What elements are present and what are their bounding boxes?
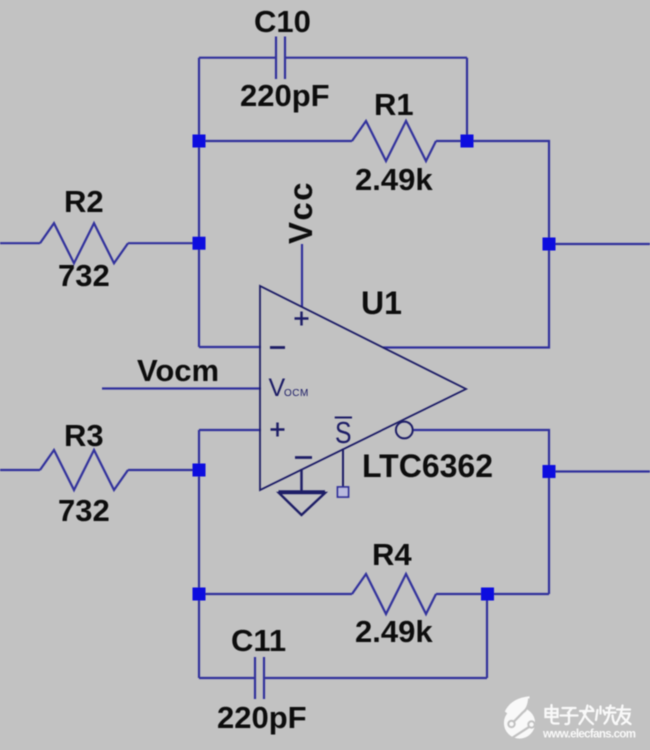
svg-text:LTC6362: LTC6362 [362,448,493,484]
svg-text:OCM: OCM [284,388,309,399]
svg-text:220pF: 220pF [217,700,307,735]
svg-text:S: S [335,415,352,450]
svg-text:2.49k: 2.49k [355,614,433,649]
svg-text:732: 732 [58,493,110,528]
svg-text:www.elecfans.com: www.elecfans.com [542,729,636,741]
svg-text:2.49k: 2.49k [355,162,433,197]
svg-text:R2: R2 [64,184,104,219]
svg-text:R4: R4 [372,537,412,572]
svg-text:U1: U1 [361,285,402,321]
svg-text:R3: R3 [64,418,104,453]
svg-text:Vcc: Vcc [282,181,319,244]
svg-text:220pF: 220pF [240,78,330,113]
svg-text:R1: R1 [374,87,414,122]
svg-text:732: 732 [58,258,110,293]
svg-text:C11: C11 [231,623,286,658]
svg-text:C10: C10 [254,4,311,39]
svg-text:V: V [269,374,286,402]
svg-text:Vocm: Vocm [137,353,219,388]
